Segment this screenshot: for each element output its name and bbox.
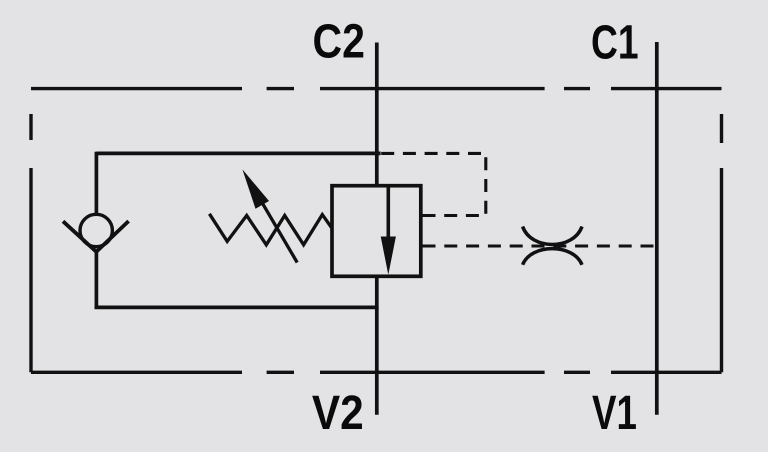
check valve CV1 seat bbox=[63, 221, 129, 252]
wire check-valve loop left vertical upper bbox=[95, 152, 99, 215]
wire C1-V1 vertical bbox=[655, 42, 659, 415]
wire check-valve loop top horizontal bbox=[96, 152, 380, 156]
svg-text:C2: C2 bbox=[313, 14, 365, 68]
valve box U1 bbox=[332, 186, 421, 277]
pilot line lower dashed (valve to C1) bbox=[423, 244, 656, 247]
enclosure border right dashed bbox=[720, 114, 723, 372]
spring (adjustable) bbox=[209, 214, 331, 245]
svg-text:V2: V2 bbox=[312, 386, 364, 440]
valve flow arrow (inside box) bbox=[381, 186, 396, 275]
svg-text:C1: C1 bbox=[591, 15, 639, 69]
check valve CV1 ball bbox=[80, 214, 112, 246]
wire V2 vertical (valve box to port V2) bbox=[375, 276, 379, 415]
wire C2 vertical (port C2 to valve box) bbox=[375, 43, 379, 186]
wire check-valve loop bottom horizontal bbox=[95, 306, 379, 310]
adjustment arrow head bbox=[242, 169, 269, 208]
svg-text:V1: V1 bbox=[592, 386, 637, 440]
adjustment arrow shaft bbox=[252, 186, 297, 263]
enclosure border left dashed bbox=[29, 114, 32, 372]
pilot line upper dashed (C2 pressure to valve) bbox=[380, 153, 486, 215]
enclosure border top dashed bbox=[31, 89, 722, 373]
restrictor orifice upper arc bbox=[523, 227, 582, 245]
wire check-valve loop left vertical lower bbox=[95, 250, 99, 307]
restrictor orifice lower arc bbox=[523, 249, 582, 265]
enclosure border bottom dashed bbox=[31, 371, 722, 374]
